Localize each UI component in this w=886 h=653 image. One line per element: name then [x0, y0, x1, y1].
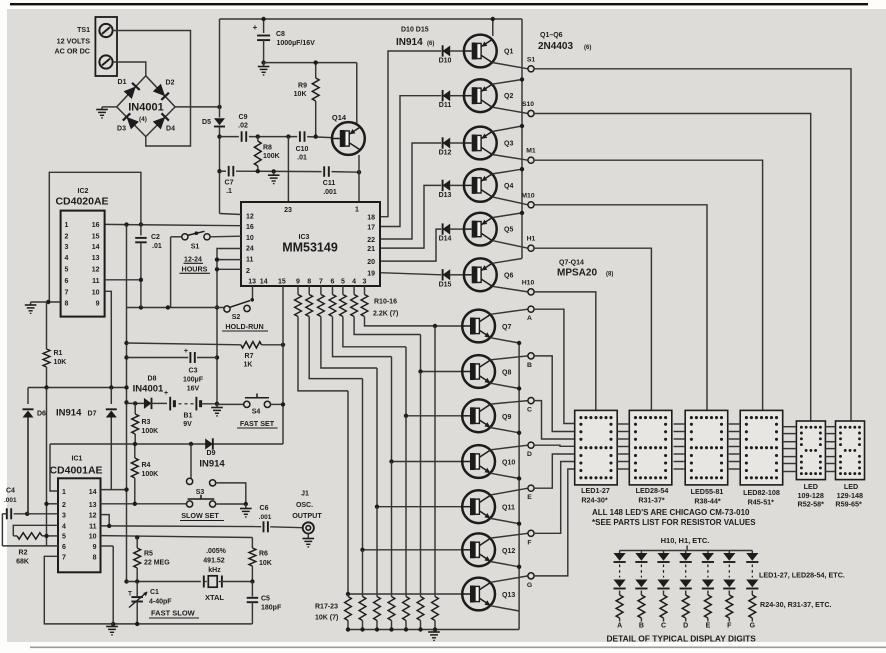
display digit 3 LED55-81 [685, 410, 728, 485]
wire Q14 collector to IC3 pin 1 [358, 155, 360, 202]
svg-text:(8): (8) [606, 272, 613, 278]
node E [528, 485, 534, 491]
svg-text:IN914: IN914 [199, 459, 225, 470]
svg-text:11: 11 [89, 523, 97, 530]
svg-text:13: 13 [92, 255, 100, 262]
wire node C to display segment bus [534, 401, 575, 439]
svg-text:D1: D1 [118, 79, 127, 86]
resistor R6 10K [251, 538, 253, 549]
svg-text:16: 16 [246, 224, 254, 231]
svg-text:9: 9 [96, 301, 100, 308]
transistor Q11 MPSA20 [462, 490, 495, 523]
emitter bus for Q1-Q6 [492, 19, 494, 36]
svg-text:F: F [727, 623, 732, 630]
node G [528, 573, 534, 579]
wire D6-R1-D7 line [28, 387, 127, 389]
svg-text:13: 13 [89, 502, 97, 509]
wire node B to display segment bus [534, 356, 575, 432]
svg-text:SLOW SET: SLOW SET [181, 511, 219, 520]
long rail from pin16 line down to XTAL line [126, 225, 128, 582]
osc output line pin 11 to J1 [101, 525, 262, 528]
svg-text:Q11: Q11 [502, 505, 515, 512]
wire node S1 to display [534, 69, 851, 421]
wire Q2 collector to node S10 [492, 107, 528, 113]
IC2 loop wire top [49, 172, 141, 301]
capacitor C4 .001 line to pin 3 [14, 513, 58, 515]
svg-text:(6): (6) [427, 41, 434, 47]
svg-text:3: 3 [65, 244, 69, 251]
svg-text:14: 14 [92, 244, 100, 251]
svg-text:15: 15 [278, 279, 286, 286]
segment bus lines between displays [617, 423, 629, 425]
bridge rectifier D1-D4 IN4001 (4) [117, 76, 175, 137]
svg-text:9: 9 [296, 279, 300, 286]
wire IC3 right pin to diode D13 [380, 185, 441, 248]
svg-text:J1: J1 [301, 491, 309, 498]
svg-text:M10: M10 [521, 192, 534, 199]
svg-text:21: 21 [367, 246, 375, 253]
svg-text:MM53149: MM53149 [282, 241, 338, 255]
display digit 2 LED28-54 [629, 410, 672, 485]
svg-text:B: B [639, 623, 644, 630]
svg-text:23: 23 [284, 207, 292, 214]
wire R12 to Q11 base [321, 317, 377, 369]
svg-text:10K: 10K [259, 560, 272, 567]
ground at IC2 pin 8 [30, 302, 32, 305]
svg-text:12: 12 [89, 513, 97, 520]
wire node H10 to display [534, 292, 596, 411]
wire Q7 emitter to bus [490, 338, 519, 343]
svg-text:DETAIL OF TYPICAL DISPLAY DIGI: DETAIL OF TYPICAL DISPLAY DIGITS [607, 634, 757, 644]
svg-text:IN4001: IN4001 [133, 384, 164, 395]
diode D3 [127, 117, 139, 129]
wire Q12 collector to node F [490, 533, 528, 538]
svg-text:C9: C9 [239, 114, 248, 121]
svg-text:LED1-27, LED28-54, ETC.: LED1-27, LED28-54, ETC. [759, 571, 845, 580]
crystal XTAL 491.52 kHz [203, 576, 205, 588]
svg-text:R52-58*: R52-58* [798, 500, 825, 509]
svg-text:.001: .001 [259, 514, 272, 521]
transistor Q9 MPSA20 [462, 399, 495, 432]
transistor Q3 2N4403 [464, 127, 497, 160]
svg-text:7: 7 [319, 279, 323, 286]
wire R10 to Q13 base [298, 317, 348, 391]
wire Q6 emitter to bus [492, 259, 522, 264]
detail column G diodes and resistor [751, 551, 753, 554]
svg-text:D8: D8 [148, 376, 157, 383]
svg-text:14: 14 [260, 279, 268, 286]
signal line C9-C10 to Q14 base [217, 134, 221, 138]
svg-text:Q4: Q4 [504, 183, 513, 190]
wire IC3 right pin to diode D11 [380, 96, 441, 227]
svg-text:1: 1 [62, 489, 66, 496]
wire IC3 right pin to diode D10 [380, 51, 441, 217]
svg-text:15: 15 [92, 233, 100, 240]
svg-text:C5: C5 [261, 596, 270, 603]
IC U2 CD4020AE box [61, 211, 105, 317]
svg-text:T: T [128, 591, 132, 598]
svg-text:S4: S4 [252, 409, 261, 416]
switch S1 12-24 HOURS [171, 236, 185, 238]
svg-text:A: A [617, 623, 622, 630]
svg-text:180pF: 180pF [261, 605, 282, 612]
transistor Q7 MPSA20 [462, 310, 495, 343]
svg-text:E: E [527, 494, 532, 501]
svg-text:D10: D10 [439, 58, 452, 65]
svg-text:7: 7 [62, 554, 66, 561]
resistor R23 10K pulldown [434, 326, 436, 597]
wire R16 to Q7 base [365, 317, 436, 326]
node D [528, 442, 534, 448]
detail column F diodes and resistor [728, 551, 730, 554]
svg-text:C: C [661, 623, 666, 630]
svg-text:16: 16 [92, 222, 100, 229]
svg-text:D6: D6 [37, 411, 46, 418]
set line with D9 [50, 443, 283, 445]
svg-text:R1: R1 [54, 350, 63, 357]
svg-text:D15: D15 [439, 281, 452, 288]
wire bridge minus to ground [102, 106, 117, 108]
wire pin 14 to rail [101, 489, 127, 491]
wire Q9 collector to node C [490, 401, 528, 405]
svg-text:3: 3 [363, 279, 367, 286]
ground at bridge [101, 107, 103, 110]
svg-text:12-24: 12-24 [184, 257, 202, 264]
svg-text:100K: 100K [142, 428, 159, 435]
svg-text:IC2: IC2 [78, 188, 89, 195]
wire pin 10 to R5/R6 top line [101, 536, 253, 538]
svg-text:109-128: 109-128 [798, 491, 824, 500]
resistor R11 2.2K [308, 286, 310, 295]
resistor R12 2.2K [320, 286, 322, 295]
transistor Q2 2N4403 [464, 79, 497, 112]
resistor R17 10K pulldown [347, 594, 349, 597]
svg-text:1000µF/16V: 1000µF/16V [277, 40, 316, 47]
svg-text:AC OR DC: AC OR DC [54, 47, 90, 56]
capacitor C3 100uF 16V [124, 355, 128, 359]
ground at J1 [307, 534, 309, 539]
svg-text:E: E [706, 623, 711, 630]
node F [528, 530, 534, 536]
diode D7 IN914 [110, 388, 112, 405]
wire R14 to Q9 base [343, 317, 406, 347]
svg-text:LED82-108: LED82-108 [743, 488, 780, 497]
wire Q2 emitter to bus [492, 80, 522, 85]
svg-text:D: D [683, 623, 688, 630]
svg-text:16V: 16V [187, 386, 200, 393]
capacitor C9 .02 [241, 131, 243, 142]
svg-text:.01: .01 [152, 243, 162, 250]
svg-text:R17-23: R17-23 [315, 604, 338, 611]
IC U1 CD4001AE box [58, 478, 101, 572]
svg-text:6: 6 [62, 544, 66, 551]
svg-text:100K: 100K [142, 471, 159, 478]
svg-text:LED1-27: LED1-27 [581, 486, 610, 495]
wire IC3 pin 23 up to C9 line [286, 134, 290, 138]
resistor R14 2.2K [342, 286, 344, 295]
svg-text:(4): (4) [139, 116, 147, 123]
wire IC2 pin 11 to C2 [105, 279, 141, 281]
svg-text:R7: R7 [245, 353, 254, 360]
svg-text:Q2: Q2 [504, 93, 513, 100]
wire Q4 collector to node M10 [492, 197, 528, 205]
svg-text:.1: .1 [226, 188, 232, 195]
diode D2 [153, 84, 165, 97]
wire node M10 to display [534, 205, 707, 411]
svg-text:10K (7): 10K (7) [315, 615, 338, 622]
wire V+ rail to IC3 pin 12 [220, 214, 242, 215]
resistor R13 2.2K [332, 286, 334, 295]
wire pin15/S4/D9 vertical [282, 286, 284, 444]
wire bridge plus to V+ rail [175, 106, 219, 108]
resistor R7 1K [124, 341, 128, 345]
ground on C7 line [273, 171, 275, 175]
diode D11 IN914 [443, 90, 451, 101]
diode D9 IN914 [205, 439, 213, 450]
diode D12 IN914 [443, 138, 451, 149]
ground below C8 [263, 63, 265, 67]
resistor R4 100K [134, 444, 136, 458]
capacitor C2 .01 [140, 224, 142, 235]
capacitor C11 .001 [323, 166, 325, 177]
wire Q5 collector to node H1 [492, 241, 528, 249]
detail top rail [686, 546, 688, 551]
svg-text:D12: D12 [439, 150, 452, 157]
transistor Q14 [332, 122, 365, 155]
svg-text:100K: 100K [263, 153, 280, 160]
wire Q7 collector to node A [490, 309, 528, 314]
diode D10 IN914 [443, 46, 451, 57]
ground at bottom rail [433, 630, 435, 633]
svg-text:2.2K (7): 2.2K (7) [373, 311, 398, 318]
svg-text:68K: 68K [16, 559, 29, 566]
capacitor C5 180pF [251, 582, 253, 597]
resistor R18 10K pulldown [362, 550, 364, 597]
diode D15 IN914 [443, 269, 451, 280]
wire Q5 emitter to bus [492, 213, 522, 218]
wire pin 7 to bottom rail [44, 556, 252, 624]
svg-text:D2: D2 [166, 80, 175, 87]
diode D4 [153, 117, 165, 129]
svg-text:6: 6 [331, 279, 335, 286]
svg-text:2: 2 [246, 268, 250, 275]
wire Q13 emitter to bus [490, 606, 519, 611]
svg-text:8: 8 [93, 554, 97, 561]
bottom ground rail for R17-23 [348, 629, 519, 631]
svg-text:C1: C1 [150, 589, 159, 596]
svg-text:MPSA20: MPSA20 [557, 268, 597, 279]
svg-text:Q1: Q1 [504, 49, 513, 56]
svg-text:FAST SET: FAST SET [240, 419, 275, 428]
node S1 [528, 66, 534, 72]
svg-text:H10: H10 [522, 279, 535, 286]
svg-text:C8: C8 [276, 31, 285, 38]
wire pin 12 jog to pin 11 line [101, 515, 110, 526]
svg-text:13: 13 [248, 279, 256, 286]
capacitor C6 .001 [263, 521, 265, 532]
svg-text:XTAL: XTAL [205, 593, 224, 602]
svg-text:1: 1 [65, 222, 69, 229]
svg-text:R31-37*: R31-37* [638, 495, 665, 504]
svg-text:2N4403: 2N4403 [538, 41, 573, 52]
svg-text:R8: R8 [263, 145, 272, 152]
transistor Q8 MPSA20 [462, 355, 495, 388]
svg-text:R24-30*: R24-30* [581, 495, 608, 504]
svg-text:TS1: TS1 [77, 27, 90, 34]
svg-text:CD4001AE: CD4001AE [49, 465, 102, 477]
svg-text:10: 10 [92, 289, 100, 296]
wire Q4 emitter to bus [492, 169, 522, 174]
svg-text:C11: C11 [323, 180, 336, 187]
resistor R3 100K [133, 401, 137, 405]
wire Q12 emitter to bus [490, 562, 519, 567]
svg-text:S10: S10 [522, 101, 534, 108]
detail column E diodes and resistor [707, 551, 709, 554]
svg-text:4: 4 [352, 279, 356, 286]
svg-text:4-40pF: 4-40pF [149, 599, 172, 606]
svg-text:5: 5 [65, 266, 69, 273]
svg-text:D: D [527, 451, 532, 458]
svg-text:Q5: Q5 [504, 227, 513, 234]
node S10 [528, 110, 534, 116]
XTAL line [124, 579, 128, 583]
svg-text:G: G [527, 582, 532, 589]
diode D6 IN914 [27, 388, 29, 405]
svg-text:R3: R3 [142, 419, 151, 426]
svg-text:R2: R2 [19, 550, 28, 557]
svg-text:11: 11 [92, 278, 100, 285]
wire IC3 right pin to diode D15 [380, 273, 441, 275]
svg-text:B1: B1 [184, 413, 193, 420]
svg-text:9V: 9V [183, 421, 192, 428]
svg-text:M1: M1 [526, 148, 536, 155]
diode D5 [214, 118, 225, 125]
svg-text:17: 17 [367, 225, 375, 232]
diode D1 [124, 86, 136, 99]
wire set line to IC1 pin 1 [50, 444, 58, 491]
transistor Q13 MPSA20 [462, 578, 495, 611]
resistor R5 22 MEG [136, 538, 138, 549]
wire node D to display segment bus [534, 445, 575, 446]
wire IC3 pins 24 11 2 to ground chain [217, 249, 241, 404]
svg-text:Q10: Q10 [502, 460, 515, 467]
wire Q10 emitter to bus [490, 473, 519, 478]
wire Q6 collector to node H10 [492, 286, 528, 292]
ground at S3 [245, 504, 247, 509]
svg-text:OUTPUT: OUTPUT [292, 511, 322, 520]
resistor R22 10K pulldown [420, 372, 422, 597]
wire Q1 collector to node S1 [492, 63, 528, 69]
svg-text:IN4001: IN4001 [128, 102, 163, 114]
svg-text:D11: D11 [439, 102, 452, 109]
svg-text:A: A [527, 315, 532, 322]
line C7 to C11 (ground line) [217, 169, 221, 173]
resistor R2 68K [1, 514, 3, 546]
svg-text:129-148: 129-148 [837, 491, 863, 500]
wire Q11 collector to node E [490, 488, 528, 495]
node H10 [528, 289, 534, 295]
transistor Q5 2N4403 [464, 213, 497, 246]
trimmer capacitor C1 4-40pF [136, 582, 138, 597]
svg-text:4: 4 [65, 255, 69, 262]
svg-text:R4: R4 [142, 462, 151, 469]
wire node M1 to display [534, 160, 763, 412]
resistor R15 2.2K [353, 286, 355, 295]
wire Q11 emitter to bus [490, 518, 519, 523]
wire Q3 emitter to bus [492, 126, 522, 132]
diode D8 IN4001 [124, 400, 128, 404]
wire Q13 collector to node G [490, 576, 528, 582]
wire node A to display segment bus [534, 309, 575, 423]
svg-text:19: 19 [367, 271, 375, 278]
node M1 [528, 157, 534, 163]
svg-text:8: 8 [307, 279, 311, 286]
svg-text:S2: S2 [232, 314, 241, 321]
svg-text:10K: 10K [54, 359, 67, 366]
svg-text:14: 14 [89, 489, 97, 496]
node M10 [528, 202, 534, 208]
svg-text:ALL 148 LED'S ARE CHICAGO CM-7: ALL 148 LED'S ARE CHICAGO CM-73-010 [592, 508, 750, 517]
svg-text:R45-51*: R45-51* [748, 497, 775, 506]
svg-text:8: 8 [65, 301, 69, 308]
svg-text:R38-44*: R38-44* [694, 496, 721, 505]
ground on bottom rail [111, 622, 115, 626]
display digit 1 LED1-27 [575, 410, 618, 485]
resistor R9 10K [315, 63, 317, 78]
resistor R8 100K [257, 137, 259, 141]
wire Q10 collector to node D [490, 445, 528, 450]
svg-text:491.52: 491.52 [203, 558, 225, 565]
svg-text:C: C [527, 407, 532, 414]
svg-text:S1: S1 [527, 56, 536, 63]
svg-text:20: 20 [367, 259, 375, 266]
wire node S10 to display [534, 114, 811, 422]
svg-text:R59-65*: R59-65* [835, 500, 862, 509]
svg-text:.001: .001 [323, 189, 337, 196]
svg-text:Q1–Q6: Q1–Q6 [540, 32, 563, 39]
svg-text:Q9: Q9 [502, 414, 511, 421]
svg-text:LED55-81: LED55-81 [691, 487, 724, 496]
IC U3 MM53149 box [241, 202, 380, 286]
svg-text:R24-30, R31-37, ETC.: R24-30, R31-37, ETC. [760, 600, 832, 609]
svg-text:D10 D15: D10 D15 [401, 27, 429, 34]
svg-text:D9: D9 [207, 450, 216, 457]
svg-text:22 MEG: 22 MEG [144, 560, 170, 567]
transistor Q1 2N4403 [464, 35, 497, 68]
svg-text:LED28-54: LED28-54 [636, 486, 669, 495]
svg-text:S1: S1 [191, 244, 200, 251]
detail column C diodes and resistor [663, 551, 665, 554]
svg-text:Q8: Q8 [502, 370, 511, 377]
svg-text:C10: C10 [296, 146, 309, 153]
wire TS1 top screw to bridge AC2 (outer loop) [113, 31, 191, 147]
svg-text:LED: LED [804, 482, 818, 491]
wire node G to display segment bus [534, 469, 575, 576]
svg-text:HOLD-RUN: HOLD-RUN [225, 322, 263, 331]
svg-text:D7: D7 [88, 411, 97, 418]
wire TS1 bottom screw to bridge AC1 [113, 62, 146, 76]
svg-text:Q14: Q14 [332, 113, 347, 122]
resistor R21 10K pulldown [405, 416, 407, 597]
wire R15 to Q8 base [354, 317, 420, 335]
svg-text:2: 2 [65, 233, 69, 240]
wire node F to display segment bus [534, 462, 575, 534]
switch S4 FAST SET [217, 403, 244, 405]
wire Q8 collector to node B [490, 356, 528, 360]
resistor R1 10K [46, 302, 48, 349]
transistor Q10 MPSA20 [462, 445, 495, 478]
diode D13 IN914 [443, 180, 451, 191]
